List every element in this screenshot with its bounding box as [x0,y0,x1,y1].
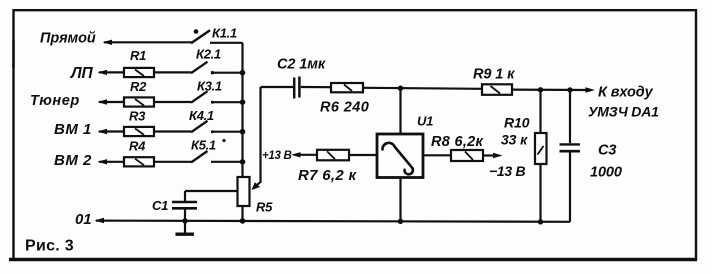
svg-text:R4: R4 [129,139,146,154]
svg-text:R7 6,2 к: R7 6,2 к [298,167,357,184]
svg-text:R3: R3 [129,109,146,124]
svg-text:01: 01 [75,211,92,228]
svg-text:R9 1 к: R9 1 к [473,67,515,83]
svg-text:R1: R1 [130,48,146,63]
svg-text:К1.1: К1.1 [212,26,237,41]
svg-text:R2: R2 [130,79,147,94]
svg-text:R6 240: R6 240 [320,100,369,116]
svg-text:К2.1: К2.1 [196,47,221,62]
svg-text:R8 6,2к: R8 6,2к [431,134,484,150]
svg-text:+13 В: +13 В [262,150,292,162]
svg-text:С1: С1 [152,198,168,213]
svg-text:U1: U1 [417,114,433,129]
svg-text:Рис. 3: Рис. 3 [25,238,74,255]
svg-text:Прямой: Прямой [40,31,96,47]
svg-text:1000: 1000 [590,165,622,181]
svg-text:33 к: 33 к [501,132,528,148]
svg-text:К3.1: К3.1 [197,79,222,94]
svg-text:Тюнер: Тюнер [30,93,80,109]
svg-text:ЛП: ЛП [70,65,94,82]
svg-text:УМЗЧ DA1: УМЗЧ DA1 [588,104,659,120]
svg-text:С2 1мк: С2 1мк [277,57,326,73]
svg-text:С3: С3 [598,143,616,159]
svg-text:К5.1: К5.1 [191,138,216,153]
svg-text:ВМ 2: ВМ 2 [54,152,92,169]
svg-text:К4.1: К4.1 [189,108,214,123]
svg-text:−13 В: −13 В [489,163,525,179]
svg-text:ВМ 1: ВМ 1 [54,121,92,138]
svg-text:R5: R5 [256,200,273,215]
svg-text:R10: R10 [504,115,530,131]
svg-text:К входу: К входу [598,85,654,101]
